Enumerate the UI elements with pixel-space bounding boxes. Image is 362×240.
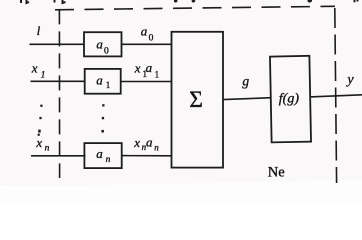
cropped text fragment top-middle 2 — [192, 0, 196, 3]
svg-text:n: n — [154, 143, 159, 153]
svg-text:0: 0 — [149, 34, 154, 44]
vertical ellipsis inputs — [38, 105, 43, 136]
svg-text:x: x — [134, 60, 141, 75]
cropped text fragment top-left 2 — [55, 0, 66, 3]
svg-text:0: 0 — [104, 46, 109, 56]
svg-text:1: 1 — [106, 80, 111, 90]
cropped text fragment top-right 1 — [308, 0, 313, 3]
weight box a1 — [85, 69, 121, 94]
svg-text:n: n — [106, 155, 111, 165]
dashed box Ne: top edge — [55, 6, 335, 10]
svg-text:y: y — [345, 73, 354, 88]
activation function box f(g) — [270, 56, 311, 143]
scanned page background — [0, 0, 362, 186]
vertical ellipsis weights — [101, 104, 104, 132]
cropped text fragment top-middle 1 — [174, 0, 177, 3]
wire input 1 to a0 — [30, 43, 84, 45]
svg-text:a: a — [141, 24, 148, 39]
svg-text:l: l — [37, 23, 41, 38]
dashed box Ne: left edge — [58, 9, 60, 178]
wire input x1 to a1 — [31, 80, 86, 82]
wire a0 to sum — [121, 43, 172, 45]
svg-text:a: a — [96, 36, 103, 51]
svg-text:g: g — [242, 74, 249, 89]
cropped text fragment top-right 2 — [355, 0, 358, 2]
wire a1 to sum — [121, 81, 172, 83]
weight box an — [84, 143, 121, 168]
svg-text:Σ: Σ — [189, 87, 203, 113]
svg-text:x: x — [35, 135, 42, 150]
svg-text:n: n — [45, 143, 50, 153]
svg-text:a: a — [96, 146, 103, 161]
wire input xn to an — [31, 155, 86, 157]
svg-text:x: x — [31, 60, 38, 75]
weight box a0 — [84, 32, 122, 56]
svg-text:a: a — [96, 72, 103, 87]
svg-text:a: a — [146, 60, 153, 75]
wire an to sum — [122, 155, 172, 157]
svg-text:x: x — [133, 135, 140, 150]
svg-text:f(g): f(g) — [279, 91, 300, 106]
wire g: sum to f(g) — [223, 98, 271, 100]
wire y: f(g) to output — [310, 95, 362, 97]
svg-text:Ne: Ne — [268, 164, 285, 180]
svg-text:a: a — [146, 134, 153, 149]
cropped text fragment top-left 1 — [21, 0, 29, 3]
dashed box Ne: right edge — [335, 8, 337, 183]
summation unit box — [172, 32, 224, 168]
svg-text:1: 1 — [155, 70, 160, 80]
svg-text:1: 1 — [41, 70, 46, 80]
